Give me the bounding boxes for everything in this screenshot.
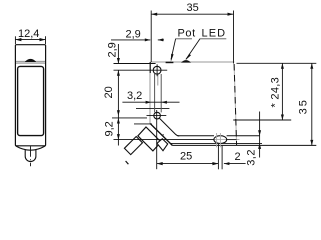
bottom slot center mark [216,133,218,147]
side-view cable gland [25,150,36,162]
side-view lens bump [25,59,36,62]
small dot detail [163,134,164,135]
svg-text:25: 25 [180,151,192,163]
dimension 12,4 [15,36,45,44]
cable gland flange (rotated) [138,127,161,151]
LED dome [181,60,191,63]
right extension lines [233,63,316,120]
svg-text:9,2: 9,2 [104,121,116,136]
front body bottom edge + 35 ext [172,144,316,146]
cable tick [126,161,129,164]
ext line y=117.9 [112,117,147,119]
shared vertical dim line x=118.4 [117,44,119,146]
svg-text:Pot: Pot [178,28,196,40]
bottom slot (stadium) [214,136,227,144]
chamfer redrawn over gland [150,124,172,146]
svg-text:LED: LED [202,28,227,40]
extension line top edge left [114,63,156,65]
svg-text:2,9: 2,9 [107,42,119,57]
svg-text:2: 2 [235,151,241,163]
front left edge [149,62,151,73]
dimension 35 top [151,11,233,64]
slot gray center line [157,74,159,86]
pot slot bar on top edge [166,62,174,64]
front top edge [150,61,234,63]
side-view inner face plate [18,66,44,135]
svg-text:2,9: 2,9 [126,29,141,41]
svg-text:* 24,3: * 24,3 [269,77,281,108]
front right edge (gray + dashed) [234,64,237,145]
slot-center extension through gland (25 dim left ext) [156,110,158,169]
chamfer-start ext line y=123.9 [134,123,152,125]
pot circle [153,66,161,74]
inner chamfer [159,118,179,136]
cable gland stub [124,137,142,155]
svg-text:3,2: 3,2 [127,90,142,102]
bottom slot-end circle [154,112,161,119]
side-view separator band [16,61,45,63]
bottom circle crosshair [147,115,167,117]
svg-text:12,4: 12,4 [18,28,39,40]
bottom groove line (interrupted by slot, ext to 3,2 dim) [177,135,259,137]
slot center line through gland [114,139,214,141]
side-view center line [30,146,32,166]
mounting slot gray lines [155,74,162,112]
gland SE collar [157,139,168,151]
svg-text:35: 35 [298,98,310,114]
svg-text:20: 20 [103,86,115,98]
side-view outer housing [15,45,45,146]
svg-text:3,2: 3,2 [246,149,258,166]
front face bottom line [170,142,262,144]
25/2 extension verticals [218,144,222,169]
pot crosshair [114,69,168,71]
side-view bottom bell curve [16,146,45,150]
inner face line y=108.6 [136,108,169,110]
outer chamfer [150,124,172,146]
svg-text:35: 35 [187,2,199,14]
slot center horizontal line y=140.1 [227,139,237,141]
